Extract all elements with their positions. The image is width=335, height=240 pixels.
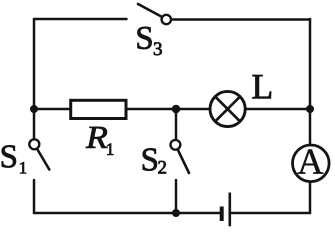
battery cell: long plate (positive) (229, 193, 232, 227)
wire S2 branch upper (175, 109, 178, 140)
switch S3 (138, 4, 171, 24)
wire right vertical upper (309, 19, 312, 145)
node: right junction dot (306, 105, 314, 113)
lamp L (210, 91, 245, 126)
label S3 (138, 27, 162, 55)
label L (253, 75, 272, 98)
switch S1 (29, 139, 49, 169)
label A (meter letter) (298, 150, 324, 174)
label S1 (2, 145, 26, 173)
resistor R1 (71, 100, 126, 118)
ammeter A (293, 145, 330, 182)
node: bottom junction dot (172, 209, 180, 217)
wire bottom-right segment (231, 212, 310, 215)
wire middle (resistor to node B) (126, 108, 210, 111)
wire left vertical lower (33, 180, 36, 213)
wire left vertical upper (33, 19, 36, 139)
wire S2 branch lower (175, 180, 178, 213)
wire top-left segment (34, 18, 127, 21)
wire right vertical lower (309, 182, 312, 213)
node: left junction dot (30, 105, 38, 113)
wire bottom-left segment (34, 212, 220, 215)
battery cell: short plate (negative) (220, 207, 224, 222)
wire top-right segment (172, 18, 311, 21)
label R1 (86, 127, 113, 155)
wire middle (lamp to right node) (246, 108, 311, 111)
wire middle left (node to resistor) (34, 108, 70, 111)
node: middle junction dot (172, 105, 181, 114)
label S2 (143, 148, 166, 173)
switch S2 (171, 140, 190, 173)
